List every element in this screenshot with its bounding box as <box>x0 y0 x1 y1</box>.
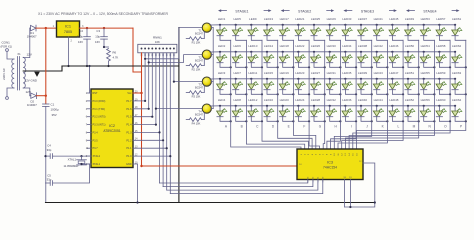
junction LED52 cathode <box>418 120 420 122</box>
wire ground bus bottom <box>46 202 375 204</box>
svg-text:P3.1 (TXD): P3.1 (TXD) <box>93 108 106 111</box>
LED37 <box>358 17 372 40</box>
junction LED62 cathode <box>465 66 467 68</box>
label column O <box>444 125 447 129</box>
svg-text:RNW1: RNW1 <box>153 35 162 39</box>
svg-text:C3: C3 <box>96 29 100 33</box>
svg-text:1N4007: 1N4007 <box>27 103 37 107</box>
junction LED36 cathode <box>355 120 357 122</box>
junction LED19 cathode <box>292 93 294 95</box>
LED12 <box>248 98 262 121</box>
junction LED58 cathode <box>449 66 451 68</box>
LED11 <box>248 71 262 94</box>
svg-text:B: B <box>241 125 243 129</box>
svg-text:10K: 10K <box>155 40 160 44</box>
wire D1 anode <box>29 27 32 29</box>
junction LED8 cathode <box>245 120 247 122</box>
label column J <box>366 125 368 129</box>
svg-text:AT89C2051: AT89C2051 <box>103 129 121 133</box>
capacitor C5 <box>46 174 53 186</box>
wire ground drop <box>178 28 180 203</box>
junction LED42 cathode <box>386 66 388 68</box>
svg-text:P1.5: P1.5 <box>126 116 132 119</box>
LED7 <box>232 71 246 94</box>
svg-text:LED61: LED61 <box>452 17 462 21</box>
LED1 <box>217 17 231 40</box>
svg-text:LED31: LED31 <box>327 71 337 75</box>
svg-text:230V AC: 230V AC <box>2 67 6 80</box>
svg-text:P3.3 (INT1): P3.3 (INT1) <box>93 124 106 127</box>
LED15 <box>264 71 278 94</box>
svg-text:LED28: LED28 <box>311 98 321 102</box>
svg-text:LED6: LED6 <box>233 44 241 48</box>
transistor T1 BC547 <box>195 23 211 36</box>
LED16 <box>264 98 278 121</box>
svg-text:LED55: LED55 <box>421 71 431 75</box>
svg-text:LED49: LED49 <box>405 17 415 21</box>
svg-text:A: A <box>225 125 228 129</box>
junction LED6 cathode <box>245 66 247 68</box>
svg-text:P1.2: P1.2 <box>126 139 132 142</box>
svg-text:X1: X1 <box>17 52 21 56</box>
label column A <box>225 125 228 129</box>
svg-text:4.7K: 4.7K <box>113 56 119 60</box>
label column N <box>429 125 432 129</box>
wire RNW1 common 5V <box>141 53 143 166</box>
label X1 <box>17 52 21 56</box>
svg-text:STAGE3: STAGE3 <box>361 10 374 14</box>
capacitor C2 <box>77 28 91 67</box>
svg-text:35V: 35V <box>52 113 57 117</box>
LED57 <box>436 17 450 40</box>
label column L <box>398 125 400 129</box>
LED14 <box>264 44 278 67</box>
junction LED54 cathode <box>433 66 435 68</box>
wire 5V to IC3 Vcc <box>140 165 297 167</box>
svg-text:BC547: BC547 <box>195 113 203 117</box>
label column H <box>335 125 338 129</box>
junction LED60 cathode <box>449 120 451 122</box>
svg-text:C1: C1 <box>51 102 55 106</box>
junction LED64 cathode <box>465 120 467 122</box>
svg-text:R1 10K: R1 10K <box>192 41 201 45</box>
microcontroller IC2 AT89C2051 <box>86 89 138 168</box>
label column K <box>382 125 385 129</box>
wire T2 collector <box>211 54 213 56</box>
wire column H <box>327 40 341 149</box>
svg-text:R6: R6 <box>113 51 117 55</box>
svg-text:LED36: LED36 <box>342 98 352 102</box>
svg-text:P1.1: P1.1 <box>126 147 132 150</box>
svg-text:LED11: LED11 <box>248 71 257 75</box>
svg-text:10µ: 10µ <box>95 35 100 39</box>
svg-text:XTAL1: XTAL1 <box>93 163 101 166</box>
transformer X1 secondary winding <box>23 57 26 88</box>
label column C <box>256 125 259 129</box>
wire D2 cathode <box>36 95 47 97</box>
transistor T4 BC547 <box>195 104 211 117</box>
wire base feed T2 <box>148 55 203 64</box>
wire column C <box>262 40 308 149</box>
svg-text:P1.3: P1.3 <box>126 131 132 134</box>
svg-text:LED5: LED5 <box>233 17 241 21</box>
svg-text:LED34: LED34 <box>342 44 352 48</box>
svg-text:D: D <box>272 125 275 129</box>
crystal XTAL1 <box>63 156 86 168</box>
svg-text:LED8: LED8 <box>233 98 241 102</box>
LED54 <box>420 44 434 67</box>
LED13 <box>264 17 278 40</box>
svg-text:LED56: LED56 <box>421 98 431 102</box>
junction LED39 cathode <box>371 93 373 95</box>
junction LED12 cathode <box>261 120 263 122</box>
svg-text:1: 1 <box>86 92 88 95</box>
LED41 <box>373 17 387 40</box>
wire address C to IC3 <box>167 180 318 191</box>
svg-text:O: O <box>444 125 447 129</box>
svg-text:IC2: IC2 <box>109 124 115 128</box>
svg-text:LED57: LED57 <box>436 17 446 21</box>
svg-text:BC547: BC547 <box>195 86 203 90</box>
LED56 <box>420 98 434 121</box>
svg-text:LED35: LED35 <box>342 71 352 75</box>
junction LED40 cathode <box>371 120 373 122</box>
svg-text:LED39: LED39 <box>358 71 368 75</box>
LED3 <box>217 71 231 94</box>
capacitor C3 <box>95 28 107 47</box>
LED48 <box>389 98 403 121</box>
wire column P <box>357 40 466 149</box>
wire address B to IC3 <box>163 180 313 187</box>
svg-text:1000µ: 1000µ <box>51 108 59 112</box>
wire bus line 6 <box>159 53 161 183</box>
wire bus line 7 <box>162 53 164 187</box>
LED8 <box>232 98 246 121</box>
LED60 <box>436 98 450 121</box>
svg-text:RST: RST <box>93 92 98 95</box>
diode D2 <box>27 93 37 107</box>
LED17 <box>279 17 293 40</box>
capacitor C1 <box>43 102 59 117</box>
LED28 <box>311 98 325 121</box>
svg-text:33p: 33p <box>47 148 52 152</box>
label column P <box>460 125 462 129</box>
svg-text:74HC154: 74HC154 <box>323 166 337 170</box>
svg-text:P3.7: P3.7 <box>93 147 99 150</box>
svg-text:M: M <box>413 125 416 129</box>
wire IC1 pin2 to ground <box>67 37 69 67</box>
LED25 <box>311 17 325 40</box>
label 230V AC <box>2 67 6 80</box>
junction LED48 cathode <box>402 120 404 122</box>
wire P1.4 to bus <box>133 124 157 126</box>
svg-text:LED38: LED38 <box>358 44 368 48</box>
svg-text:LED23: LED23 <box>295 71 305 75</box>
LED53 <box>420 17 434 40</box>
svg-text:LED42: LED42 <box>374 44 384 48</box>
junction LED56 cathode <box>433 120 435 122</box>
junction LED16 cathode <box>277 120 279 122</box>
transformer X1 core <box>18 57 20 91</box>
wire 5V rail <box>80 27 134 29</box>
svg-text:LED37: LED37 <box>358 17 368 21</box>
wire column O <box>353 40 450 149</box>
svg-text:12V: 12V <box>27 53 32 57</box>
LED38 <box>358 44 372 67</box>
label column F <box>303 125 305 129</box>
LED59 <box>436 71 450 94</box>
LED19 <box>279 71 293 94</box>
wire bus line 4 <box>151 53 153 117</box>
svg-text:LED4: LED4 <box>218 98 226 102</box>
wire D2 anode <box>30 95 31 97</box>
svg-text:LED46: LED46 <box>389 44 399 48</box>
svg-text:LED54: LED54 <box>421 44 431 48</box>
junction LED46 cathode <box>402 66 404 68</box>
svg-text:12V GND: 12V GND <box>25 79 37 83</box>
LED31 <box>326 71 340 94</box>
svg-text:P3.2 (INT0): P3.2 (INT0) <box>93 116 106 119</box>
svg-text:C: C <box>256 125 259 129</box>
LED5 <box>232 17 246 40</box>
svg-text:IC3: IC3 <box>327 160 333 164</box>
svg-text:LED59: LED59 <box>436 71 446 75</box>
svg-text:LED3: LED3 <box>218 71 226 75</box>
svg-text:7805: 7805 <box>64 30 72 34</box>
svg-text:LED26: LED26 <box>311 44 321 48</box>
LED40 <box>358 98 372 121</box>
junction LED43 cathode <box>386 93 388 95</box>
LED61 <box>452 17 466 40</box>
resistor R6 <box>103 46 118 67</box>
wire column B <box>246 40 304 149</box>
svg-text:3: 3 <box>86 108 88 111</box>
wire P1.5 to bus <box>133 116 153 118</box>
LED2 <box>217 44 231 67</box>
svg-text:H: H <box>335 125 338 129</box>
svg-text:LED7: LED7 <box>233 71 241 75</box>
label STAGE3 <box>343 9 397 13</box>
junction LED44 cathode <box>386 120 388 122</box>
label column M <box>413 125 416 129</box>
LED36 <box>342 98 356 121</box>
junction LED31 cathode <box>339 93 341 95</box>
LED34 <box>342 44 356 67</box>
ground centre-tap arrow <box>34 72 40 77</box>
wire column M <box>345 40 418 149</box>
svg-text:BC547: BC547 <box>195 32 203 36</box>
svg-text:11.0592MHz: 11.0592MHz <box>63 164 79 168</box>
svg-text:LED50: LED50 <box>405 44 415 48</box>
svg-text:9: 9 <box>86 139 88 142</box>
junction LED22 cathode <box>308 66 310 68</box>
LED21 <box>295 17 309 40</box>
svg-text:(FOR X1): (FOR X1) <box>1 45 13 49</box>
transistor T3 BC547 <box>195 77 211 90</box>
svg-text:LED25: LED25 <box>311 17 321 21</box>
wire address A to IC3 <box>160 180 308 184</box>
wire T4 collector <box>211 108 213 110</box>
wire bus line 10 <box>173 53 175 82</box>
svg-text:K: K <box>382 125 385 129</box>
wire IC2 Vcc to 5V bus <box>133 92 143 94</box>
junction LED34 cathode <box>355 66 357 68</box>
LED20 <box>279 98 293 121</box>
junction LED26 cathode <box>324 66 326 68</box>
wire secondary bottom tap 12V <box>23 88 31 96</box>
wire XTAL2 line <box>53 155 91 157</box>
svg-text:R2 10K: R2 10K <box>192 68 201 72</box>
svg-text:LED20: LED20 <box>280 98 290 102</box>
svg-text:6: 6 <box>86 116 88 119</box>
svg-text:N: N <box>429 125 432 129</box>
svg-text:LED43: LED43 <box>374 71 384 75</box>
wire 5V down to bus <box>133 28 142 72</box>
LED64 <box>452 98 466 121</box>
wire secondary top tap 12V <box>23 28 32 57</box>
junction LED2 cathode <box>230 66 232 68</box>
connector CON1 <box>1 41 13 100</box>
junction LED3 cathode <box>230 93 232 95</box>
resistor network RNW1 <box>138 35 177 56</box>
svg-text:5: 5 <box>86 155 88 158</box>
LED4 <box>217 98 231 121</box>
svg-text:GND: GND <box>126 163 132 166</box>
LED24 <box>295 98 309 121</box>
wire T4 emitter to rail <box>210 105 220 107</box>
LED63 <box>452 71 466 94</box>
junction LED30 cathode <box>339 66 341 68</box>
wire bus line 8 <box>166 53 168 190</box>
wire bus line 5 <box>155 53 157 125</box>
svg-text:LED17: LED17 <box>280 17 290 21</box>
svg-text:LED63: LED63 <box>452 71 462 75</box>
svg-text:LED53: LED53 <box>421 17 431 21</box>
wire ground line <box>62 65 179 67</box>
LED32 <box>326 98 340 121</box>
LED30 <box>326 44 340 67</box>
wire column E <box>293 40 315 149</box>
junction LED18 cathode <box>292 66 294 68</box>
wire T1 emitter to rail <box>210 24 220 26</box>
label column B <box>241 125 243 129</box>
wire column F <box>309 40 319 149</box>
svg-text:LED14: LED14 <box>264 44 274 48</box>
LED18 <box>279 44 293 67</box>
svg-text:P3.5: P3.5 <box>93 139 99 142</box>
title text <box>38 12 168 16</box>
svg-text:LED60: LED60 <box>436 98 446 102</box>
svg-text:LED19: LED19 <box>280 71 290 75</box>
wire column I <box>331 40 357 149</box>
LED43 <box>373 71 387 94</box>
LED29 <box>326 17 340 40</box>
LED10 <box>248 44 262 67</box>
svg-text:LED27: LED27 <box>311 71 321 75</box>
junction LED47 cathode <box>402 93 404 95</box>
svg-text:LED2: LED2 <box>218 44 226 48</box>
wire column G <box>323 40 325 149</box>
svg-text:E: E <box>288 125 290 129</box>
svg-text:BC547: BC547 <box>195 59 203 63</box>
junction LED7 cathode <box>245 93 247 95</box>
svg-text:12V: 12V <box>26 90 31 94</box>
LED51 <box>405 71 419 94</box>
wire column D <box>278 40 312 149</box>
svg-text:I: I <box>351 125 352 129</box>
svg-text:LED24: LED24 <box>295 98 305 102</box>
wire rectified supply <box>45 28 47 104</box>
wire P1.3 to bus <box>133 131 161 133</box>
svg-text:C2: C2 <box>79 29 83 33</box>
junction LED23 cathode <box>308 93 310 95</box>
svg-text:2: 2 <box>86 100 88 103</box>
LED26 <box>311 44 325 67</box>
svg-text:STAGE4: STAGE4 <box>423 10 436 14</box>
svg-text:LED16: LED16 <box>264 98 274 102</box>
svg-text:XTAL1: XTAL1 <box>68 157 77 161</box>
svg-text:16V: 16V <box>95 40 100 44</box>
diode D1 <box>27 25 37 38</box>
LED39 <box>358 71 372 94</box>
svg-text:3: 3 <box>82 25 84 28</box>
LED27 <box>311 71 325 94</box>
svg-text:LED10: LED10 <box>248 44 258 48</box>
LED62 <box>452 44 466 67</box>
wire base feed T3 <box>173 81 203 83</box>
junction LED38 cathode <box>371 66 373 68</box>
svg-text:LED52: LED52 <box>405 98 415 102</box>
svg-text:LED21: LED21 <box>295 17 305 21</box>
svg-text:LED62: LED62 <box>452 44 462 48</box>
wire bus line 9 <box>169 53 171 194</box>
junction LED11 cathode <box>261 93 263 95</box>
svg-text:8: 8 <box>86 131 88 134</box>
svg-text:P1.0: P1.0 <box>126 155 132 158</box>
LED47 <box>389 71 403 94</box>
junction LED14 cathode <box>277 66 279 68</box>
svg-text:LED40: LED40 <box>358 98 368 102</box>
svg-text:R4 10K: R4 10K <box>192 122 201 126</box>
wire CON1 to primary <box>7 51 14 96</box>
LED23 <box>295 71 309 94</box>
svg-text:P1.6: P1.6 <box>126 108 132 111</box>
svg-text:P3.4: P3.4 <box>93 131 99 134</box>
wire row 4 rail <box>220 105 456 107</box>
junction LED59 cathode <box>449 93 451 95</box>
svg-text:J: J <box>366 125 368 129</box>
resistor R2 10K <box>186 59 204 72</box>
wire column K <box>338 40 387 149</box>
svg-text:G: G <box>319 125 322 129</box>
wire column A <box>231 40 301 149</box>
label column G <box>319 125 322 129</box>
junction LED4 cathode <box>230 120 232 122</box>
transformer X1 primary winding <box>12 59 14 88</box>
transistor T2 BC547 <box>195 50 211 63</box>
label column E <box>288 125 290 129</box>
svg-text:F: F <box>303 125 305 129</box>
svg-text:1N4007: 1N4007 <box>27 35 37 39</box>
LED44 <box>373 98 387 121</box>
wire P1.6 to bus <box>133 108 150 110</box>
svg-text:LED12: LED12 <box>248 98 258 102</box>
label 12V GND <box>25 79 37 83</box>
LED52 <box>405 98 419 121</box>
svg-text:STAGE1: STAGE1 <box>235 10 248 14</box>
LED9 <box>248 17 262 40</box>
svg-text:LED13: LED13 <box>264 17 274 21</box>
